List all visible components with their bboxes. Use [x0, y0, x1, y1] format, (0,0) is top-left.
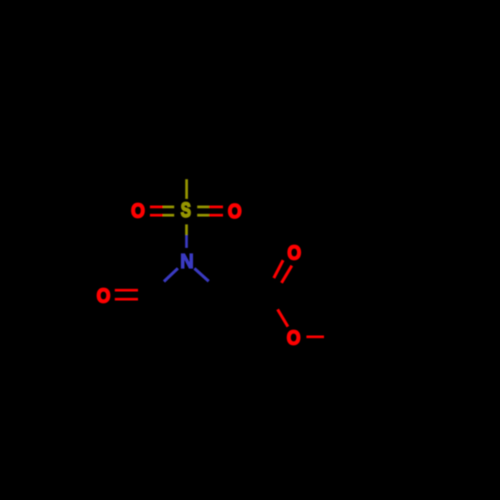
bond O5-CH3 methoxy red half	[306, 335, 324, 338]
bond C6=O4 ester carbonyl second line red half	[274, 260, 283, 278]
svg-text:O: O	[97, 286, 111, 308]
bond S1=O1 bottom line olive half	[163, 214, 174, 217]
bond N1-C4 ring blue half	[164, 268, 178, 281]
svg-text:O: O	[228, 201, 242, 223]
bond C4=O3 ketone bottom line red half	[115, 298, 138, 301]
bond C4=O3 ketone top line red half	[115, 289, 138, 292]
bond N1-C2 ring blue half	[194, 268, 208, 281]
bond S1=O1 top line olive half	[163, 206, 174, 209]
bond S1-CH3 methyl visible olive half	[185, 179, 188, 199]
bond S1=O2 bottom line olive half	[197, 214, 209, 217]
svg-text:O: O	[287, 328, 301, 350]
bond S1=O2 bottom line red half	[209, 214, 223, 217]
bond S1-N1 olive half	[185, 224, 188, 235]
bond C6-O5 ester single bond red half	[278, 309, 288, 326]
bond S1=O1 bottom line red half	[150, 214, 163, 217]
bond S1-N1 blue half	[185, 235, 188, 248]
bond C6=O4 ester carbonyl main line red half	[282, 266, 292, 283]
svg-text:O: O	[287, 243, 301, 265]
bond S1=O1 top line red half	[150, 206, 163, 209]
svg-text:S: S	[181, 198, 191, 222]
bond S1=O2 top line olive half	[197, 206, 209, 209]
svg-text:O: O	[131, 201, 145, 223]
svg-text:N: N	[180, 252, 193, 274]
bond S1=O2 top line red half	[209, 206, 223, 209]
